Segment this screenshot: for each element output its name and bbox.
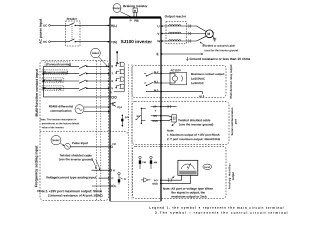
svg-text:Multi-function relay output: Multi-function relay output <box>229 65 233 99</box>
svg-text:SJ100 inverter: SJ100 inverter <box>121 39 153 44</box>
svg-text:SN: SN <box>153 115 157 118</box>
svg-text:Braking resistor: Braking resistor <box>123 4 148 8</box>
svg-text:1a/250VAC: 1a/250VAC <box>191 77 205 81</box>
svg-text:FM: FM <box>112 143 115 146</box>
svg-text:P: P <box>130 19 132 23</box>
svg-text:AL0: AL0 <box>199 94 205 98</box>
svg-text:parentheses as the factory def: parentheses as the factory default <box>42 122 80 125</box>
svg-text:SO: SO <box>136 115 140 118</box>
svg-text:used for the inverter ground: used for the inverter ground <box>205 49 239 52</box>
svg-text:port: port <box>233 119 237 124</box>
svg-text:(Reverse running): (Reverse running) <box>43 70 68 74</box>
svg-text:Note3: Note3 <box>204 166 211 169</box>
svg-text:value of the inverter.: value of the inverter. <box>42 126 65 129</box>
svg-text:(Forward running): (Forward running) <box>46 62 71 66</box>
svg-text:GND: GND <box>152 120 158 123</box>
svg-text:AL2: AL2 <box>154 71 159 74</box>
svg-text:DC: DC <box>43 40 47 44</box>
svg-text:Output reactor: Output reactor <box>165 14 187 18</box>
svg-text:AC110V: AC110V <box>171 68 182 72</box>
svg-text:output: output <box>231 172 235 180</box>
svg-text:FM: FM <box>142 161 145 164</box>
svg-text:AL1: AL1 <box>154 81 159 84</box>
svg-text:Frequency setting input: Frequency setting input <box>34 145 38 188</box>
svg-text:Breaker: Breaker <box>67 17 78 21</box>
svg-text:2.The symbol ○ represents the: 2.The symbol ○ represents the control ci… <box>155 211 288 215</box>
svg-text:AM: AM <box>153 161 157 164</box>
svg-text:Ground resistance or less than: Ground resistance or less than 10 ohms <box>190 57 251 61</box>
svg-text:Maximum contact output:: Maximum contact output: <box>191 72 225 76</box>
svg-text:SP: SP <box>153 106 157 109</box>
svg-text:Analog monitor: Analog monitor <box>227 162 231 189</box>
svg-text:Note1: Note1 <box>113 6 121 10</box>
svg-text:AL0: AL0 <box>154 89 159 92</box>
svg-text:(Reverse jog): (Reverse jog) <box>43 86 61 90</box>
svg-text:Note2: Note2 <box>92 51 100 55</box>
svg-text:Voltage/current type analog in: Voltage/current type analog input <box>46 175 97 179</box>
svg-text:24V: 24V <box>125 116 130 119</box>
svg-text:2.Internal resistance of AI po: 2.Internal resistance of AI port:100kΩ <box>48 193 103 197</box>
svg-text:O: O <box>111 177 113 180</box>
svg-text:Multi-function contact input: Multi-function contact input <box>35 68 39 116</box>
svg-text:R(L): R(L) <box>111 24 117 28</box>
svg-text:M: M <box>207 32 210 36</box>
svg-text:(use the inverter ground): (use the inverter ground) <box>179 122 213 126</box>
svg-text:V: V <box>157 32 159 36</box>
svg-text:communication: communication <box>50 109 72 113</box>
svg-text:maximum output or 2mA: maximum output or 2mA <box>171 195 207 199</box>
svg-text:2. T port maximum output: 30mA: 2. T port maximum output: 30mA/10kΩ <box>167 137 221 141</box>
svg-text:T(N): T(N) <box>111 40 117 44</box>
svg-text:U: U <box>157 24 159 28</box>
svg-text:(Forward jog): (Forward jog) <box>43 78 62 82</box>
svg-text:Serial communication: Serial communication <box>230 107 234 135</box>
svg-text:(use the inverter ground): (use the inverter ground) <box>59 157 93 161</box>
svg-text:1a/30VDC: 1a/30VDC <box>191 81 204 85</box>
svg-text:L: L <box>111 90 113 94</box>
svg-text:Pulse input: Pulse input <box>72 141 88 145</box>
svg-text:H: H <box>113 169 115 172</box>
svg-text:Note: The function description: Note: The function description in <box>40 118 77 121</box>
svg-text:DC: DC <box>43 23 47 27</box>
svg-text:AC power input: AC power input <box>39 18 43 44</box>
svg-text:W: W <box>157 39 160 43</box>
svg-text:Legend 1, the symbol ● represe: Legend 1, the symbol ● represents the ma… <box>149 206 284 210</box>
svg-text:GND: GND <box>152 183 158 186</box>
svg-text:AI: AI <box>124 178 127 181</box>
svg-text:P24: P24 <box>117 106 122 109</box>
svg-text:Note2: Note2 <box>52 138 60 142</box>
svg-text:Shielded or armored cable: Shielded or armored cable <box>202 44 235 48</box>
